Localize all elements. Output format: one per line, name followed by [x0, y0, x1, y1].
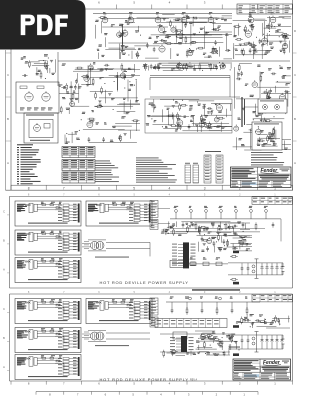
svg-text:8: 8	[28, 186, 30, 190]
svg-text:HOT ROD DELUXE POWER SUPPLY: HOT ROD DELUXE POWER SUPPLY	[100, 377, 189, 382]
svg-text:3: 3	[204, 186, 206, 190]
svg-text:6: 6	[98, 186, 100, 190]
svg-text:C: C	[3, 308, 5, 311]
svg-text:5: 5	[133, 186, 135, 190]
svg-text:C: C	[294, 73, 296, 77]
svg-text:4: 4	[169, 186, 171, 190]
svg-text:7: 7	[63, 186, 65, 190]
svg-text:D: D	[294, 29, 296, 33]
svg-text:REV A: REV A	[190, 379, 197, 382]
svg-text:C: C	[7, 73, 9, 77]
svg-text:B: B	[7, 117, 9, 121]
svg-text:B: B	[294, 117, 296, 121]
svg-text:HOT ROD DEVILLE POWER SUPPLY: HOT ROD DEVILLE POWER SUPPLY	[100, 280, 189, 285]
svg-text:A: A	[294, 161, 296, 165]
svg-text:A: A	[7, 161, 9, 165]
svg-text:C: C	[3, 210, 5, 213]
